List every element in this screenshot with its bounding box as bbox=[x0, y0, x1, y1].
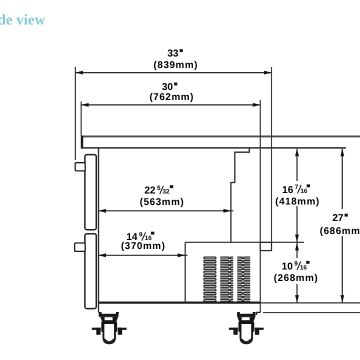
cabinet bottom bbox=[99, 302, 261, 304]
svg-text:Side view: Side view bbox=[0, 13, 46, 29]
rear wall spacer box bbox=[260, 242, 271, 250]
upper door bbox=[85, 155, 96, 230]
dimension 27" bbox=[318, 149, 360, 303]
svg-text:(563mm): (563mm) bbox=[140, 197, 185, 208]
dimension 33" bbox=[75, 49, 271, 75]
svg-text:(418mm): (418mm) bbox=[275, 196, 320, 207]
svg-text:(686mm): (686mm) bbox=[320, 226, 360, 237]
condenser grille top line / middle extension bbox=[185, 241, 304, 243]
rear caster bbox=[229, 312, 264, 343]
condenser grille louvre column 2 bbox=[220, 257, 233, 303]
svg-text:9: 9 bbox=[294, 261, 298, 268]
caster plate reference line bbox=[263, 312, 360, 314]
compressor housing step profile bbox=[231, 148, 249, 242]
svg-text:(762mm): (762mm) bbox=[149, 92, 194, 103]
cabinet back wall / 30" right extension bbox=[259, 100, 261, 313]
svg-text:(839mm): (839mm) bbox=[154, 60, 199, 71]
svg-text:7: 7 bbox=[295, 184, 299, 191]
front caster bbox=[92, 312, 127, 343]
condenser grille louvre column 1 bbox=[203, 257, 216, 303]
dimension 22 5/32" bbox=[99, 185, 234, 213]
extension line 30" left bbox=[80, 102, 82, 137]
svg-text:9: 9 bbox=[139, 232, 143, 239]
svg-text:(268mm): (268mm) bbox=[274, 273, 319, 284]
dimension 14 9/16" bbox=[99, 232, 188, 258]
condenser grille left edge bbox=[184, 242, 186, 302]
back wall bottom hook bbox=[257, 312, 261, 315]
dimension 30" bbox=[81, 82, 260, 107]
dimension 10 9/16" bbox=[273, 243, 320, 303]
svg-text:16: 16 bbox=[300, 188, 308, 195]
svg-text:5: 5 bbox=[157, 185, 161, 192]
svg-text:22: 22 bbox=[144, 186, 156, 197]
extension line 33" right bbox=[271, 67, 273, 243]
cabinet front edge bbox=[98, 148, 100, 313]
svg-text:27: 27 bbox=[332, 213, 344, 224]
lower door bbox=[85, 234, 96, 309]
bottom extension line (right) bbox=[260, 302, 360, 304]
svg-text:33: 33 bbox=[167, 49, 179, 60]
svg-text:16: 16 bbox=[300, 264, 308, 271]
svg-text:(370mm): (370mm) bbox=[121, 241, 166, 252]
lower door hinge bbox=[75, 243, 86, 251]
svg-text:16: 16 bbox=[282, 185, 294, 196]
condenser grille louvre column 3 bbox=[237, 257, 250, 303]
upper door hinge bbox=[75, 163, 85, 171]
svg-text:32: 32 bbox=[162, 189, 170, 196]
svg-text:10: 10 bbox=[282, 261, 294, 272]
extension line 33" left bbox=[74, 67, 76, 160]
dimension 16 7/16" bbox=[274, 149, 320, 242]
countertop slab bbox=[81, 136, 360, 149]
svg-text:30: 30 bbox=[162, 82, 174, 93]
